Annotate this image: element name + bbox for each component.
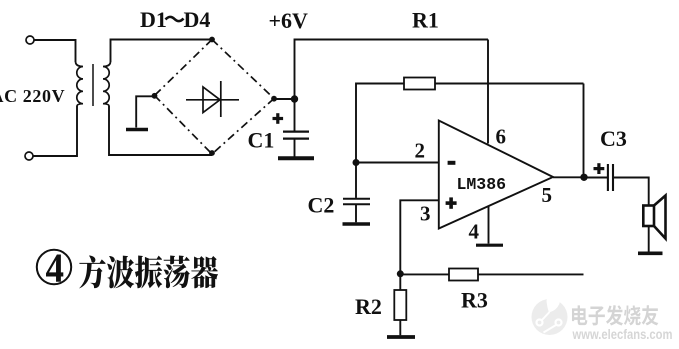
wire R2 to ground: [399, 320, 401, 335]
terminal J1 (AC input top): [26, 36, 34, 44]
svg-text:R3: R3: [461, 288, 488, 313]
node pin2: [353, 159, 360, 166]
svg-text:C1: C1: [248, 128, 275, 153]
transformer T1 secondary winding: [103, 62, 111, 106]
ground (bridge left): [126, 128, 148, 132]
svg-text:C2: C2: [308, 193, 335, 218]
caption circled 4: [37, 245, 71, 291]
wire supply down to op-amp pin 6: [487, 40, 489, 144]
capacitor C2: [343, 199, 370, 205]
caption 方波振荡器: [79, 255, 218, 288]
wire +6V rail: [295, 40, 489, 100]
node bridge bottom: [209, 150, 215, 156]
wire feedback R1 top: [356, 84, 584, 163]
label C1 plus: [273, 113, 284, 124]
node bridge right: [271, 96, 277, 102]
node C1 junction: [291, 95, 298, 102]
wire feedback right leg down to output: [583, 84, 585, 178]
svg-text:R1: R1: [412, 8, 439, 33]
terminal J2 (AC input bottom): [25, 152, 33, 160]
capacitor C3: [608, 164, 613, 191]
wire C2 to ground: [355, 205, 357, 222]
wire pin 3: [400, 200, 439, 273]
diode bridge D1~D4 dashed diamond: [155, 40, 275, 155]
svg-text:AC 220V: AC 220V: [0, 86, 65, 106]
ground (under speaker): [638, 252, 663, 256]
wire C3 to speaker: [613, 178, 649, 206]
ground (pin 4): [476, 244, 503, 247]
ground (under C2): [343, 222, 371, 225]
ground (under R2): [387, 335, 415, 339]
wire J2 to transformer primary: [33, 106, 77, 156]
node bridge left: [152, 93, 158, 99]
watermark 电子发烧友: [572, 305, 658, 325]
svg-text:D4: D4: [184, 7, 211, 32]
wire pin 2: [356, 162, 439, 164]
svg-text:4: 4: [469, 220, 480, 244]
resistor R2: [394, 290, 406, 320]
svg-text:+6V: +6V: [269, 8, 309, 33]
resistor R3: [449, 269, 478, 281]
wire node to R2: [399, 274, 401, 290]
transformer T1 primary winding: [76, 62, 84, 106]
speaker LS1: [643, 196, 665, 239]
node output: [580, 174, 587, 181]
capacitor C1: [283, 132, 309, 139]
wire speaker to ground: [648, 226, 650, 252]
wire junction down to C1: [294, 99, 296, 131]
node bridge top: [209, 37, 215, 43]
wire bridge left to ground: [136, 96, 154, 127]
op-amp U1 LM386 triangle: [439, 121, 553, 229]
svg-text:2: 2: [415, 139, 426, 163]
watermark logo elecfans: [532, 289, 568, 335]
svg-text:C3: C3: [600, 126, 627, 151]
svg-text:6: 6: [496, 125, 507, 149]
wire bottom feedback R2/R3: [400, 273, 583, 275]
wire bridge right to C1 junction: [274, 98, 295, 100]
wire transformer secondary top to bridge: [111, 40, 213, 63]
resistor R1: [404, 78, 435, 90]
op-amp minus input mark: [448, 161, 456, 165]
wire transformer secondary bottom to bridge: [109, 106, 212, 155]
svg-text:www.elecfans.com: www.elecfans.com: [572, 327, 673, 342]
wire output to C3: [584, 177, 607, 179]
svg-text:5: 5: [542, 183, 553, 207]
svg-text:3: 3: [420, 202, 431, 226]
wire pin2 node down to C2: [355, 163, 357, 198]
label C3 plus: [594, 163, 605, 174]
svg-text:4: 4: [46, 245, 65, 291]
svg-text:R2: R2: [355, 294, 382, 319]
op-amp plus input mark: [446, 197, 457, 208]
ground (under C1): [278, 156, 314, 160]
wire J1 to transformer primary: [34, 40, 75, 62]
svg-text:LM386: LM386: [457, 175, 507, 194]
transformer T1 core: [92, 64, 94, 106]
wire output pin 5: [553, 176, 584, 178]
diode symbol inside bridge: [186, 81, 239, 117]
node bottom junction: [397, 270, 404, 277]
svg-text:D1: D1: [140, 7, 167, 32]
wire pin 4 to ground: [488, 206, 490, 244]
wire C1 to ground: [294, 140, 296, 157]
